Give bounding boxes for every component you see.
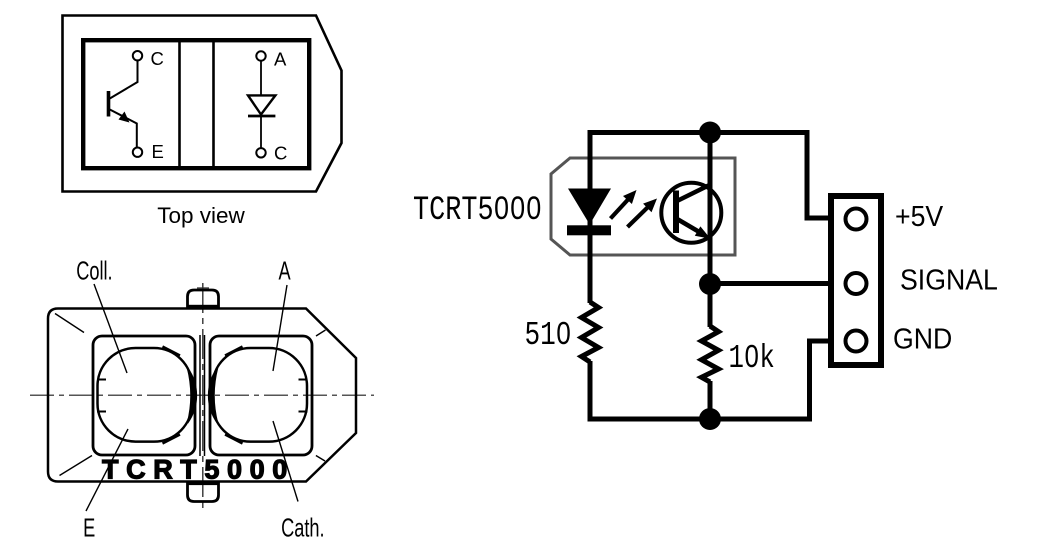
resistor 10k — [702, 326, 719, 382]
left lens tab bottom — [163, 435, 181, 444]
leader line Coll. — [94, 284, 127, 373]
vertical centerline — [202, 283, 204, 509]
sensor body outline — [48, 309, 356, 482]
left lens step lower — [97, 411, 106, 413]
left lens step upper — [97, 379, 106, 381]
LED cathode bar — [567, 225, 611, 235]
connector J1 body — [831, 196, 881, 365]
right lens outline — [213, 348, 308, 442]
bottom tab base band — [187, 482, 220, 486]
pin C terminal circle — [133, 51, 142, 60]
connector pin 3 — [846, 331, 867, 352]
corner tick top-right — [316, 330, 326, 336]
phototransistor Q1 circle — [661, 183, 721, 243]
svg-text:Cath.: Cath. — [281, 513, 325, 542]
svg-text:TCRT5000: TCRT5000 — [413, 191, 542, 230]
divider line left — [178, 40, 181, 168]
leader line A — [273, 285, 287, 371]
wire collector lead — [110, 61, 138, 99]
wire bottom rail — [588, 417, 813, 422]
detector cell frame — [210, 336, 312, 455]
pin A terminal circle — [256, 51, 265, 60]
corner tick bottom-left — [60, 456, 93, 476]
svg-text:+5V: +5V — [895, 200, 944, 232]
svg-text:E: E — [83, 513, 95, 542]
wire +5V riser — [807, 133, 845, 219]
centerline tick top — [197, 287, 209, 289]
package outline (top view) — [63, 16, 342, 192]
top mounting tab — [188, 290, 219, 309]
pin E terminal circle — [133, 148, 142, 157]
svg-text:Top view: Top view — [157, 203, 245, 228]
wire cathode lead — [260, 117, 262, 148]
LED D1 triangle — [568, 189, 611, 225]
leader line Cath. — [273, 421, 298, 502]
horizontal centerline — [30, 394, 374, 396]
junction signal — [699, 273, 721, 295]
svg-text:SIGNAL: SIGNAL — [900, 263, 998, 295]
resistor 510 — [582, 302, 599, 362]
right lens tab top — [225, 347, 243, 356]
wire top rail — [588, 130, 810, 135]
divider wall line left — [199, 335, 201, 456]
sensor package box (gray) — [551, 158, 735, 255]
inner package frame — [83, 40, 309, 168]
corner tick bottom-right — [316, 456, 325, 462]
Q1 emitter arrowhead — [695, 226, 711, 238]
svg-text:GND: GND — [893, 322, 952, 354]
junction top — [699, 122, 721, 144]
left lens outline — [98, 348, 193, 442]
junction bottom — [699, 408, 721, 430]
connector pin 1 — [846, 209, 867, 230]
right lens crescent — [209, 368, 218, 423]
diode D (top view) triangle — [248, 95, 275, 114]
divider wall line right — [204, 335, 206, 456]
svg-text:C: C — [151, 48, 164, 69]
wire LED column — [588, 130, 593, 303]
diode cathode bar — [248, 115, 275, 118]
right lens step lower — [299, 411, 308, 413]
svg-text:Coll.: Coll. — [76, 256, 112, 285]
svg-text:E: E — [152, 141, 164, 162]
Q1 emitter stroke — [678, 220, 701, 234]
leader line E — [86, 429, 128, 511]
top tab base band — [187, 305, 220, 309]
wire SIGNAL — [710, 281, 845, 286]
Q1 collector stroke — [678, 184, 712, 201]
pin C2 terminal circle — [256, 148, 265, 157]
wire anode lead — [260, 61, 262, 96]
Q1 base bar — [673, 191, 679, 234]
transistor Q (top view) base bar — [107, 91, 111, 117]
bottom mounting tab — [188, 482, 219, 502]
wire GND riser — [810, 341, 846, 419]
left lens tab top — [163, 347, 181, 356]
connector pin 2 — [846, 273, 867, 294]
left lens crescent — [188, 368, 197, 423]
wire transistor column — [708, 130, 713, 327]
emitter cell frame — [93, 336, 195, 455]
LED emission arrow 1 — [611, 199, 629, 219]
right lens step upper — [299, 379, 308, 381]
svg-text:TCRT5000: TCRT5000 — [102, 455, 295, 485]
LED emission arrow 2 — [628, 207, 649, 228]
svg-text:A: A — [279, 256, 291, 285]
divider line right — [212, 40, 215, 168]
right lens tab bottom — [225, 435, 243, 444]
corner tick top-left — [55, 314, 84, 333]
wire emitter lead — [110, 110, 137, 148]
svg-text:A: A — [274, 48, 287, 69]
svg-text:C: C — [274, 142, 287, 163]
wire transistor column lower — [708, 381, 713, 422]
wire LED column lower — [588, 361, 593, 422]
emitter arrowhead — [119, 112, 130, 123]
